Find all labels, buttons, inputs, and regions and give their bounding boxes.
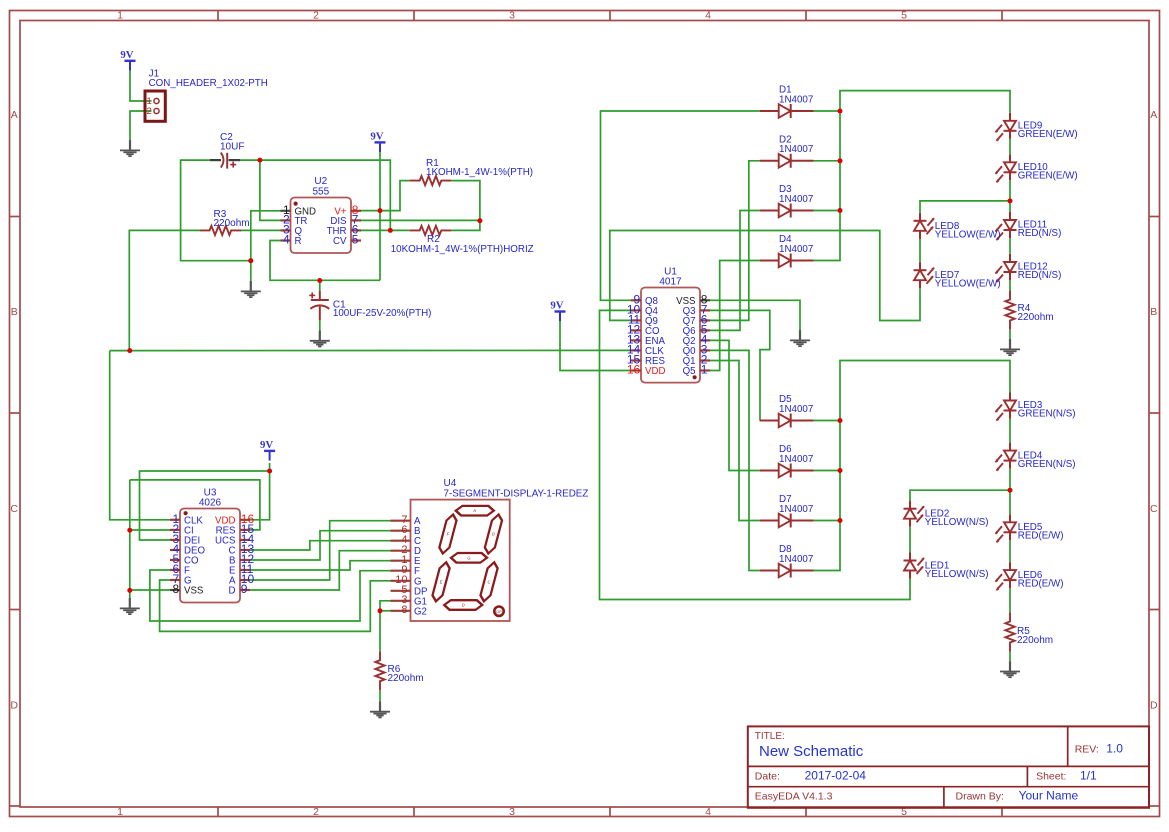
wire Q2 pin4 to D6	[710, 340, 760, 470]
svg-text:EasyEDA V4.1.3: EasyEDA V4.1.3	[755, 791, 833, 803]
wire LED5-LED6	[1009, 540, 1011, 562]
wire G2 stub	[380, 610, 391, 612]
svg-text:3: 3	[509, 806, 515, 818]
wire U3 A to U4 A	[250, 521, 391, 580]
svg-text:GREEN(E/W): GREEN(E/W)	[1018, 171, 1078, 182]
LED LED4	[995, 443, 1075, 472]
LED LED10	[995, 154, 1078, 183]
pin 5 DP	[391, 590, 411, 592]
svg-text:9V: 9V	[370, 131, 383, 143]
svg-text:1KOHM-1_4W-1%(PTH): 1KOHM-1_4W-1%(PTH)	[426, 167, 533, 178]
svg-text:220ohm: 220ohm	[1018, 312, 1054, 323]
svg-text:B: B	[11, 306, 18, 318]
wire 9V to U3 VDD	[250, 463, 270, 520]
junction 9V U3	[267, 469, 272, 474]
svg-text:R: R	[295, 236, 302, 247]
decimal point	[494, 607, 503, 616]
pin 5 CO	[170, 559, 180, 561]
svg-text:VDD: VDD	[645, 366, 665, 377]
LED LED2	[904, 501, 989, 529]
pin 7 G	[170, 579, 180, 581]
svg-text:RED(E/W): RED(E/W)	[1018, 531, 1064, 542]
svg-text:D: D	[229, 586, 236, 597]
svg-text:1N4007: 1N4007	[779, 554, 813, 565]
pin 6 Q7	[700, 319, 710, 321]
wire 9V to J1 pin1	[130, 70, 152, 101]
capacitor C1	[309, 291, 431, 320]
LED LED9	[995, 113, 1078, 142]
wire C1 top lead	[319, 280, 321, 291]
wire D1-D4 cathode bus to LED9	[814, 91, 1011, 261]
pin 1 GND	[281, 210, 291, 212]
svg-text:CON_HEADER_1X02-PTH: CON_HEADER_1X02-PTH	[149, 78, 268, 89]
wire R2 left lead	[390, 229, 409, 231]
net flag 9V (555 supply)	[370, 131, 385, 153]
LED LED5	[995, 514, 1063, 543]
pin 10 A	[240, 579, 250, 581]
pin 2 CI	[170, 529, 180, 531]
wire J1 pin2 to ground	[130, 111, 152, 140]
LED LED3	[995, 393, 1075, 422]
svg-text:7-SEGMENT-DISPLAY-1-REDEZ: 7-SEGMENT-DISPLAY-1-REDEZ	[444, 488, 589, 499]
svg-text:9V: 9V	[550, 300, 563, 312]
wire LED8-LED7	[919, 239, 921, 263]
pin 8 G2	[391, 610, 411, 612]
svg-text:4: 4	[283, 233, 290, 247]
pin 4 DEO	[170, 549, 180, 551]
pin 7 Q3	[700, 309, 710, 311]
pin 7 A	[391, 520, 411, 522]
svg-text:1N4007: 1N4007	[779, 454, 813, 465]
wire LED11-LED12	[1009, 238, 1011, 254]
wire U3 VSS	[130, 589, 170, 591]
junction LED node upper	[1008, 198, 1013, 203]
wire node to LED2	[910, 490, 1010, 501]
svg-text:100UF-25V-20%(PTH): 100UF-25V-20%(PTH)	[333, 308, 432, 319]
wire DIS pin7	[361, 219, 480, 221]
connector J1	[145, 69, 268, 122]
wire D2 cathode	[814, 160, 841, 162]
ground (R6)	[370, 701, 390, 717]
svg-text:REV:: REV:	[1075, 743, 1099, 755]
svg-text:GREEN(N/S): GREEN(N/S)	[1018, 459, 1076, 470]
diode D3 1N4007	[760, 184, 814, 217]
title block	[748, 726, 1149, 807]
wire 555 R pin4 to C1 node	[270, 241, 380, 281]
svg-text:D: D	[1150, 700, 1158, 712]
wire D5 cathode	[814, 420, 841, 422]
wire CLK long run	[110, 349, 631, 351]
resistor R2	[391, 226, 534, 255]
wire Q6 pin5 to D3	[710, 211, 760, 331]
svg-text:RED(N/S): RED(N/S)	[1018, 270, 1062, 281]
pin 1 E	[391, 560, 411, 562]
LED LED8	[914, 213, 1001, 241]
pin 11 Q9	[631, 319, 641, 321]
pin 4 C	[391, 540, 411, 542]
svg-text:1N4007: 1N4007	[779, 94, 813, 105]
ground (U1 VSS)	[790, 330, 810, 346]
wire U1 VDD to 9V	[560, 321, 631, 371]
pin 8 V+	[351, 210, 361, 212]
svg-text:C: C	[1150, 503, 1158, 515]
junction U3 VSS	[127, 588, 132, 593]
resistor R6	[375, 651, 423, 690]
svg-text:1N4007: 1N4007	[779, 194, 813, 205]
wire D1 cathode	[814, 110, 841, 112]
svg-text:GREEN(N/S): GREEN(N/S)	[1018, 409, 1076, 420]
svg-text:4017: 4017	[659, 277, 682, 288]
pin 6 F	[170, 569, 180, 571]
resistor R5	[1005, 613, 1053, 652]
pin 10 G	[391, 580, 411, 582]
svg-text:Your Name: Your Name	[1019, 789, 1079, 803]
svg-text:1: 1	[701, 363, 708, 377]
svg-text:2017-02-04: 2017-02-04	[805, 768, 867, 782]
svg-text:2: 2	[313, 806, 319, 818]
svg-text:YELLOW(E/W): YELLOW(E/W)	[935, 279, 1001, 290]
svg-text:2: 2	[147, 106, 152, 117]
ground (J1)	[120, 140, 140, 156]
wire node to LED8	[920, 201, 1010, 213]
junction D5	[838, 418, 843, 423]
diode D5 1N4007	[760, 394, 814, 427]
pin 8 VSS	[170, 589, 180, 591]
resistor R3	[200, 209, 250, 235]
pin 16 VDD	[240, 519, 250, 521]
pin 6 THR	[351, 229, 361, 231]
wire C1 bottom to ground	[319, 320, 321, 330]
pin 8 VSS	[700, 299, 710, 301]
svg-text:YELLOW(N/S): YELLOW(N/S)	[925, 517, 989, 528]
wire D6 cathode	[814, 470, 841, 472]
pin 3 Q	[281, 229, 291, 231]
pin 13 C	[240, 549, 250, 551]
ground (R4)	[1000, 339, 1020, 355]
svg-text:5: 5	[352, 233, 359, 247]
wire U3 F to U4 F	[150, 570, 391, 621]
pin 9 D	[240, 589, 250, 591]
pin 2 D	[391, 550, 411, 552]
svg-text:D: D	[10, 700, 18, 712]
svg-text:3: 3	[509, 9, 515, 21]
pin 10 Q4	[631, 309, 641, 311]
wire V+ to R1	[361, 181, 410, 211]
wire Q8 pin9 to D1	[601, 111, 760, 300]
wire R3 right to Q pin3	[240, 229, 280, 231]
svg-text:10KOHM-1_4W-1%(PTH)HORIZ: 10KOHM-1_4W-1%(PTH)HORIZ	[391, 244, 534, 255]
wire LED4 to node A2	[1009, 469, 1011, 515]
ground (C1)	[310, 330, 330, 346]
svg-text:A: A	[11, 109, 18, 121]
wire LED6 to R5	[1009, 588, 1011, 612]
wire D3 cathode	[814, 210, 841, 212]
wire U3 CI	[130, 529, 170, 531]
svg-text:1.0: 1.0	[1106, 741, 1123, 755]
pin 12 B	[240, 559, 250, 561]
resistor R4	[1005, 291, 1053, 330]
pin 1 Q5	[700, 369, 710, 371]
pin 14 UCS	[240, 539, 250, 541]
svg-text:D: D	[461, 603, 465, 608]
7-segment glyph	[431, 506, 506, 610]
wire Q7 pin6 to D2	[710, 161, 760, 321]
svg-text:220ohm: 220ohm	[1017, 635, 1053, 646]
svg-text:B: B	[1150, 306, 1157, 318]
pin 9 Q8	[631, 299, 641, 301]
junction D1	[838, 109, 843, 114]
pin 12 CO	[631, 329, 641, 331]
net flag 9V (4017 supply)	[550, 300, 565, 322]
wire LED10 to node A1	[1009, 180, 1011, 212]
wire TR branch	[260, 160, 281, 220]
svg-text:1N4007: 1N4007	[779, 144, 813, 155]
junction THR/R2/C2	[388, 228, 393, 233]
capacitor C2	[210, 132, 245, 169]
wire LED9-LED10	[1009, 139, 1011, 155]
wire R3 left to CLK rail	[129, 230, 199, 350]
svg-text:Sheet:: Sheet:	[1036, 770, 1066, 782]
wire R6 to ground	[379, 690, 381, 701]
svg-text:555: 555	[312, 186, 329, 197]
net flag 9V (J1 supply)	[120, 49, 135, 71]
svg-text:4: 4	[705, 9, 711, 21]
op-amp U2 555 timer	[281, 176, 362, 253]
pin 15 RES	[240, 529, 250, 531]
svg-text:1/1: 1/1	[1080, 768, 1097, 782]
svg-text:1: 1	[117, 806, 123, 818]
svg-text:RED(E/W): RED(E/W)	[1018, 578, 1064, 589]
pin 2 TR	[281, 219, 291, 221]
junction GND net	[248, 258, 253, 263]
junction C1 top	[317, 278, 322, 283]
diode D6 1N4007	[760, 444, 814, 477]
svg-text:TITLE:: TITLE:	[755, 731, 785, 742]
pin 11 E	[240, 569, 250, 571]
pin 1 CLK	[170, 519, 180, 521]
junction D2	[838, 158, 843, 163]
svg-text:YELLOW(E/W): YELLOW(E/W)	[935, 229, 1001, 240]
wire THR pin6	[361, 229, 390, 231]
svg-text:8: 8	[401, 604, 407, 616]
net flag 9V (4026 supply)	[260, 439, 275, 461]
svg-text:RED(N/S): RED(N/S)	[1018, 228, 1062, 239]
wire U3 RES loop	[130, 480, 260, 530]
LED LED11	[995, 212, 1061, 241]
pin 2 Q1	[700, 359, 710, 361]
junction V+/9V	[378, 208, 383, 213]
pin 16 VDD	[631, 369, 641, 371]
svg-text:1N4007: 1N4007	[779, 404, 813, 415]
svg-text:9V: 9V	[260, 439, 273, 451]
wire U3 B to U4 B	[250, 531, 391, 560]
wire LED12 to R4	[1009, 280, 1011, 291]
pin 5 Q6	[700, 329, 710, 331]
wire U3 E to U4 E	[250, 561, 391, 570]
wire R5 to ground	[1009, 652, 1011, 662]
svg-text:4: 4	[705, 806, 711, 818]
svg-text:10UF: 10UF	[220, 142, 244, 153]
junction D6	[838, 468, 843, 473]
display U4 7-segment	[391, 478, 589, 621]
wire G1/G2 to R6	[380, 601, 391, 651]
wire 9V to U3 DEI	[140, 471, 270, 540]
junction G2	[378, 608, 383, 613]
diode D7 1N4007	[760, 494, 814, 527]
wire D7 cathode	[814, 520, 841, 522]
LED LED6	[995, 562, 1063, 591]
wire Q1 pin2 to D7	[710, 361, 760, 521]
svg-text:YELLOW(N/S): YELLOW(N/S)	[925, 569, 989, 580]
svg-text:4026: 4026	[199, 498, 222, 509]
pin 4 R	[281, 239, 291, 241]
diode D1 1N4007	[760, 85, 814, 118]
diode D2 1N4007	[760, 135, 814, 168]
wire Q0 pin3 to D8	[710, 350, 760, 570]
wire Q9 pin11 to LED7 chain	[610, 231, 920, 321]
pin 3 DEI	[170, 539, 180, 541]
svg-text:VSS: VSS	[184, 586, 204, 597]
svg-text:9: 9	[241, 582, 248, 596]
LED LED7	[914, 262, 1001, 290]
wire LED3-LED4	[1009, 419, 1011, 443]
ground (555 GND)	[241, 281, 261, 297]
wire CLK down to U3 pin1	[110, 351, 170, 520]
wire C2 right to THR node	[240, 160, 390, 230]
wire U3 G to U4 G	[160, 580, 391, 631]
ground (R5)	[1000, 661, 1020, 677]
svg-text:New Schematic: New Schematic	[759, 743, 864, 760]
wire U3 D to U4 D	[250, 551, 391, 590]
svg-text:2: 2	[313, 9, 319, 21]
svg-text:G2: G2	[414, 606, 427, 617]
pin 5 CV	[351, 239, 361, 241]
svg-text:GREEN(E/W): GREEN(E/W)	[1018, 129, 1078, 140]
wire 555 GND pin1	[251, 211, 281, 281]
svg-text:5: 5	[901, 9, 907, 21]
junction U3 CI	[127, 528, 132, 533]
svg-text:220ohm: 220ohm	[214, 218, 250, 229]
pin 13 ENA	[631, 339, 641, 341]
pin 4 Q2	[700, 339, 710, 341]
wire Q4 pin10 to LED1 cathode	[600, 310, 911, 599]
svg-text:A: A	[1150, 109, 1157, 121]
wire U3 left rail	[129, 480, 131, 598]
LED LED12	[995, 254, 1061, 283]
wire R4 to ground	[1009, 330, 1011, 340]
svg-text:Drawn By:: Drawn By:	[956, 791, 1004, 803]
junction LED node lower	[1008, 488, 1013, 493]
pin 9 F	[391, 570, 411, 572]
LED LED1	[904, 553, 989, 581]
wire C2 left to GND net	[181, 160, 251, 261]
counter U1 4017	[627, 267, 710, 383]
wire D5-D8 cathode bus to LED3	[814, 361, 1011, 571]
pin 3 G1	[391, 600, 411, 602]
counter U3 4026	[170, 487, 254, 602]
wire Q3 pin7 to D5	[710, 310, 770, 420]
svg-text:9V: 9V	[120, 49, 133, 61]
wire LED2-LED1	[909, 527, 911, 553]
svg-text:C: C	[487, 579, 491, 584]
pin 14 CLK	[631, 349, 641, 351]
wire Q5 pin1 to D4	[710, 261, 760, 371]
svg-text:Q5: Q5	[683, 366, 696, 377]
pin 6 B	[391, 530, 411, 532]
svg-text:220ohm: 220ohm	[388, 673, 424, 684]
junction D3	[838, 208, 843, 213]
junction DIS/R1/R2	[477, 218, 482, 223]
pin 15 RES	[631, 359, 641, 361]
wire U3 C to U4 C	[250, 541, 391, 550]
wire U1 VSS to ground	[710, 300, 800, 330]
pin 3 Q0	[700, 349, 710, 351]
resistor R1	[410, 158, 533, 185]
svg-text:DP: DP	[496, 610, 502, 614]
pin 7 DIS	[351, 219, 361, 221]
svg-text:G: G	[467, 555, 471, 560]
svg-text:1: 1	[117, 9, 123, 21]
junction CLK/R3 rail	[127, 348, 132, 353]
svg-text:16: 16	[627, 363, 641, 377]
ground (U3)	[120, 598, 140, 614]
junction C2/TR	[257, 158, 262, 163]
svg-text:C: C	[10, 503, 18, 515]
wire 9V rail 555	[379, 152, 381, 280]
svg-text:1N4007: 1N4007	[779, 504, 813, 515]
svg-text:Date:: Date:	[755, 770, 780, 782]
svg-text:1N4007: 1N4007	[779, 244, 813, 255]
diode D4 1N4007	[760, 234, 814, 267]
wire R1 right to DIS node and R2	[451, 181, 480, 231]
svg-text:CV: CV	[333, 236, 347, 247]
svg-text:8: 8	[173, 582, 180, 596]
junction D7	[838, 518, 843, 523]
diode D8 1N4007	[760, 544, 814, 577]
